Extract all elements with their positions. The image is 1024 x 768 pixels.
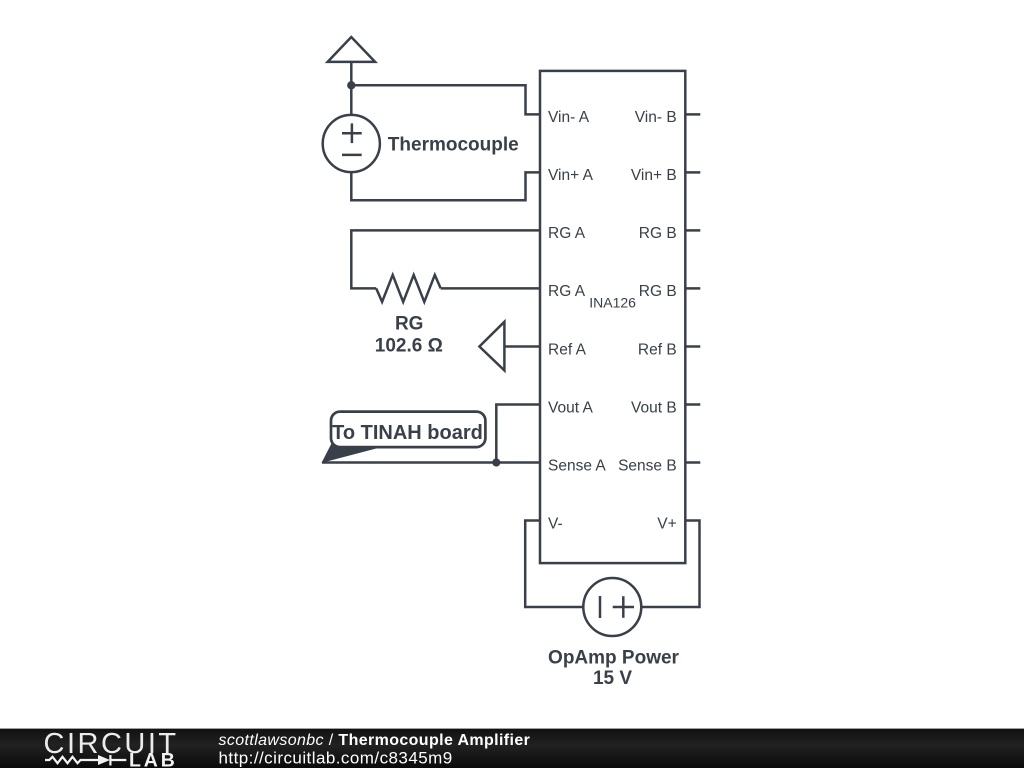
junction: thermocouple top node <box>347 81 355 89</box>
svg-text:Vin- A: Vin- A <box>548 109 590 126</box>
svg-text:http://circuitlab.com/c8345m9: http://circuitlab.com/c8345m9 <box>219 748 453 767</box>
wire: V+ to power source positive <box>641 521 699 608</box>
junction: Vout A / Sense A node <box>492 458 500 466</box>
svg-text:RG A: RG A <box>548 283 586 300</box>
pin stub Vin+ B <box>685 171 700 174</box>
label: RG value <box>375 314 443 357</box>
wire: thermocouple top node to Vin- A <box>351 85 540 114</box>
svg-text:LAB: LAB <box>129 749 178 768</box>
pin stub RG B (upper) <box>685 229 700 232</box>
svg-text:Vin- B: Vin- B <box>635 109 677 126</box>
svg-text:Ref A: Ref A <box>548 341 587 358</box>
wire: Ref A ground to pin <box>504 345 540 348</box>
svg-text:V+: V+ <box>657 515 676 532</box>
svg-text:15 V: 15 V <box>593 668 632 689</box>
label: OpAmp Power 15 V <box>548 647 680 689</box>
wire: thermocouple bottom to Vin+ A <box>351 172 540 200</box>
pin stub RG B (lower) <box>685 287 700 290</box>
svg-text:OpAmp Power: OpAmp Power <box>548 647 680 668</box>
wire: RG A (pin 3) loop to resistor left <box>351 230 540 288</box>
ground symbol (triangle) at Ref A <box>479 322 504 371</box>
voltage source V1 Thermocouple <box>323 115 380 172</box>
wire: V- to power source negative <box>525 521 583 608</box>
wire: Vout A down to Sense A node <box>496 405 540 463</box>
svg-text:Sense B: Sense B <box>618 457 677 474</box>
resistor RG <box>376 275 441 302</box>
svg-text:Vin+ B: Vin+ B <box>631 167 677 184</box>
wire: resistor right to RG A (pin 4) <box>441 287 540 290</box>
svg-text:Vout B: Vout B <box>631 399 677 416</box>
footer bar <box>0 729 1024 768</box>
svg-text:To TINAH board: To TINAH board <box>332 422 483 444</box>
wire: Sense A to callout tail <box>322 461 540 464</box>
svg-text:Thermocouple: Thermocouple <box>388 135 519 156</box>
pin stub Ref B <box>685 345 700 348</box>
svg-text:V-: V- <box>548 515 563 532</box>
svg-text:RG A: RG A <box>548 225 586 242</box>
svg-text:RG: RG <box>395 314 424 335</box>
pin stub Sense B <box>685 461 700 464</box>
svg-text:Vout A: Vout A <box>548 399 593 416</box>
svg-text:INA126: INA126 <box>589 295 636 311</box>
callout: To TINAH board <box>322 412 486 463</box>
CircuitLab logo resistor-diode glyph <box>45 755 126 766</box>
svg-text:RG B: RG B <box>639 225 677 242</box>
pin stub Vout B <box>685 403 700 406</box>
svg-text:scottlawsonbc / Thermocouple A: scottlawsonbc / Thermocouple Amplifier <box>219 732 531 749</box>
ground symbol (triangle) above thermocouple <box>328 37 376 115</box>
svg-text:Ref B: Ref B <box>638 341 677 358</box>
pin stub Vin- B <box>685 113 700 116</box>
svg-text:102.6 Ω: 102.6 Ω <box>375 335 443 356</box>
svg-text:Vin+ A: Vin+ A <box>548 167 594 184</box>
svg-text:RG B: RG B <box>639 283 677 300</box>
svg-text:Sense A: Sense A <box>548 457 606 474</box>
IC U1 INA126 body <box>540 71 685 563</box>
voltage source V2 OpAmp Power <box>583 578 641 636</box>
